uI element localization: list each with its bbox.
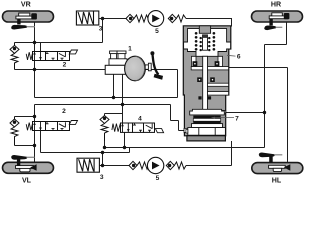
svg-text:7: 7 xyxy=(235,116,239,123)
block piston 7 xyxy=(186,109,226,135)
svg-text:VL: VL xyxy=(22,177,32,185)
wire master pipes xyxy=(114,74,123,105)
wire HR staircase xyxy=(226,19,287,113)
pump 5 bottom xyxy=(147,157,163,173)
pedal xyxy=(150,51,163,79)
tire HL xyxy=(252,163,303,174)
check valve bypass top-left xyxy=(10,43,19,70)
brake VL xyxy=(11,155,36,172)
wire ring circuit1 xyxy=(15,60,178,97)
valve 2 top xyxy=(26,50,77,61)
wire bottom-left xyxy=(15,131,130,165)
svg-text:HR: HR xyxy=(271,1,281,9)
check valve bypass lower-left xyxy=(10,117,19,146)
svg-text:HL: HL xyxy=(272,177,282,185)
tire VR xyxy=(3,11,54,22)
svg-text:3: 3 xyxy=(100,174,104,181)
svg-text:5: 5 xyxy=(156,175,160,182)
block springs (dot coils) xyxy=(195,32,215,51)
pump 5 top xyxy=(148,11,164,27)
block seals xyxy=(193,61,220,99)
tire VL xyxy=(3,162,54,173)
check valve pump-left bottom xyxy=(129,161,148,169)
svg-text:6: 6 xyxy=(237,53,241,60)
svg-text:2: 2 xyxy=(62,108,66,115)
tire HR xyxy=(252,11,303,22)
block mid channels xyxy=(184,56,229,132)
check valve bypass valve4 xyxy=(100,116,109,142)
wire top pump line y=18 xyxy=(103,19,233,27)
wire bottom long line y=147.5 xyxy=(105,113,265,166)
label 7 leader xyxy=(212,117,235,119)
accumulator 3 top xyxy=(76,11,102,25)
valve 4 xyxy=(112,123,164,133)
label 6 leader xyxy=(227,54,236,57)
check valve pump-left top xyxy=(126,14,148,22)
wire top-left rail y=42.5 xyxy=(15,19,103,52)
svg-text:4: 4 xyxy=(138,115,142,122)
wire valve4 drops xyxy=(105,105,125,148)
valve 2 lower xyxy=(26,121,77,131)
wire bottom pump line y=165.5 xyxy=(99,153,231,166)
wire HL line xyxy=(229,68,288,165)
svg-text:VR: VR xyxy=(21,1,31,9)
brake HR xyxy=(264,13,289,30)
check valve pump-right top xyxy=(168,14,186,22)
svg-text:3: 3 xyxy=(99,26,103,33)
svg-text:1: 1 xyxy=(128,45,132,52)
svg-text:2: 2 xyxy=(63,62,67,69)
master cylinder 1 xyxy=(105,51,151,81)
accumulator 3 bottom xyxy=(77,158,99,172)
modulator block body xyxy=(183,26,231,141)
svg-text:5: 5 xyxy=(155,28,159,35)
wire line2 circuit2 xyxy=(15,105,185,131)
check valve pump-right bottom xyxy=(166,161,186,169)
block top chamber xyxy=(184,26,231,57)
brake VR xyxy=(11,13,37,30)
brake HL xyxy=(259,153,291,172)
